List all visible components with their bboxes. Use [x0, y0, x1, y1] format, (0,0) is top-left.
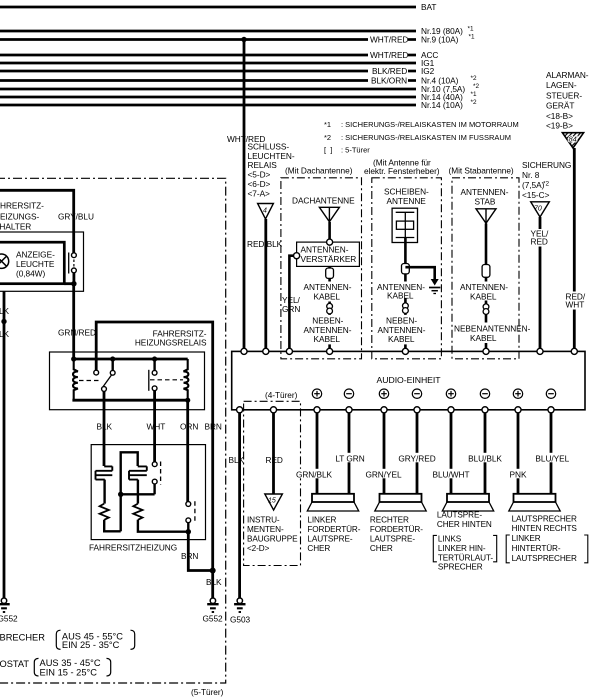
heater switch enclosure box	[0, 232, 84, 291]
svg-text:STAB: STAB	[475, 196, 496, 206]
svg-text:KABEL: KABEL	[314, 334, 341, 344]
svg-text:WHT: WHT	[147, 422, 166, 432]
svg-text:GRN: GRN	[282, 304, 300, 314]
contact K2 circles	[152, 370, 157, 375]
power bus Nr.9 WHT/RED	[0, 38, 368, 41]
rod antenna symbol	[476, 209, 496, 224]
svg-text:LAUTSPRECHER: LAUTSPRECHER	[512, 514, 577, 523]
junction dot BLK branch	[1, 319, 6, 324]
wire label GRN/BLK	[297, 469, 331, 479]
junction dot at bus Nr.9	[241, 37, 246, 42]
junction dot L2 bottom	[185, 398, 190, 403]
svg-text:BLU/YEL: BLU/YEL	[535, 453, 569, 463]
svg-text:(Mit Stabantenne): (Mit Stabantenne)	[449, 165, 514, 175]
wire RED/WHT to audio	[573, 148, 576, 351]
svg-text:84: 84	[569, 135, 577, 144]
label ANTENNEN-KABEL	[376, 282, 428, 299]
contact K2 lever	[148, 370, 150, 391]
svg-text:VERSTÄRKER: VERSTÄRKER	[301, 254, 357, 264]
wire BLK left to ground	[3, 291, 6, 599]
svg-text:HINTERTÜR-: HINTERTÜR-	[512, 543, 561, 553]
svg-text:: SICHERUNGS-/RELAISKASTEN IM: : SICHERUNGS-/RELAISKASTEN IM MOTORRAUM	[341, 120, 519, 129]
svg-text:BLK: BLK	[0, 306, 10, 316]
svg-text:<2-D>: <2-D>	[247, 544, 270, 553]
svg-text:ANTENNEN-: ANTENNEN-	[460, 282, 508, 292]
svg-text:*2: *2	[473, 83, 479, 90]
svg-text:: SICHERUNGS-/RELAISKASTEN IM: : SICHERUNGS-/RELAISKASTEN IM FUSSRAUM	[341, 133, 511, 142]
svg-text:ALARMAN-: ALARMAN-	[546, 70, 589, 80]
svg-text:BRECHER: BRECHER	[0, 632, 45, 642]
wire BRN heater exit	[188, 532, 212, 571]
svg-text:EIN 25 - 35°C: EIN 25 - 35°C	[62, 640, 120, 650]
switch S1 lever	[68, 253, 70, 274]
contact K1 tap wire	[111, 359, 113, 370]
svg-text:GRY/RED: GRY/RED	[398, 453, 435, 463]
bracket right SP4 note	[584, 535, 588, 563]
relay feed wire over box to BRN	[96, 322, 213, 599]
power bus Nr.10	[0, 88, 416, 91]
K2 actuator dash link to coil L2	[150, 379, 183, 381]
svg-text:BLK/RED: BLK/RED	[372, 66, 407, 76]
wire RED/BLK to audio unit	[264, 219, 267, 351]
svg-text:CHER HINTEN: CHER HINTEN	[437, 520, 492, 529]
window antenna symbol	[392, 208, 417, 242]
svg-text:LAUTSPRE-: LAUTSPRE-	[437, 510, 482, 519]
svg-text:<7-A>: <7-A>	[248, 188, 271, 198]
contact K2 tap wire	[153, 359, 155, 370]
svg-text:FAHRERSITZHEIZUNG: FAHRERSITZHEIZUNG	[89, 543, 177, 553]
switch S1 contacts	[72, 253, 77, 258]
wire lamp box to junction	[64, 282, 75, 285]
svg-text:ANTENNEN-: ANTENNEN-	[461, 187, 509, 197]
svg-text:LAUTSPRE-: LAUTSPRE-	[370, 535, 415, 544]
connector circle antenna 2	[402, 348, 408, 354]
ground G552 left	[0, 598, 10, 612]
svg-text:4: 4	[263, 208, 267, 215]
wire stub ACC	[408, 54, 416, 57]
label ANTENNEN-KABEL	[302, 282, 357, 302]
wire BLK to ground G503	[238, 413, 241, 599]
svg-text:WHT: WHT	[566, 300, 585, 310]
svg-text:WHT/RED: WHT/RED	[370, 35, 408, 45]
connector circle YEL/RED top	[537, 348, 543, 354]
resistor R1	[100, 504, 109, 520]
relay coil L1	[73, 359, 78, 400]
label ANTENNEN-KABEL	[459, 282, 510, 301]
junction dot switch/lamp	[71, 281, 76, 286]
wire WHT from K2 down	[153, 391, 156, 463]
audio unit box AUDIO-EINHEIT	[232, 351, 585, 409]
svg-text:<18-B>: <18-B>	[546, 111, 573, 121]
junction dot contact2 tap	[152, 356, 157, 361]
junction dot node A	[118, 492, 123, 497]
svg-text:GRN/YEL: GRN/YEL	[365, 469, 402, 479]
thermal switch TS2	[186, 502, 191, 507]
wire stub IG2	[408, 70, 416, 73]
roof antenna symbol	[319, 207, 339, 222]
svg-text:KABEL: KABEL	[387, 290, 414, 300]
svg-text:STEUER-: STEUER-	[546, 90, 582, 100]
indicator lamp box ANZEIGE-LEUCHTE	[0, 242, 64, 284]
wire label RED/WHT	[564, 292, 587, 310]
svg-text:GERÄT: GERÄT	[546, 101, 574, 111]
svg-text:WHT/RED: WHT/RED	[370, 50, 408, 60]
connector circle RED/BLK top	[263, 348, 269, 354]
coil L1 to K1 actuator dash link	[79, 380, 101, 382]
chassis ground symbol	[431, 279, 439, 286]
svg-text:70: 70	[534, 206, 542, 213]
power bus Nr.14 (10A)	[0, 104, 416, 107]
5-Tuerer section dash-dot border	[0, 178, 226, 683]
wire R2 to junction	[138, 520, 188, 532]
svg-text:AUDIO-EINHEIT: AUDIO-EINHEIT	[377, 375, 442, 385]
connector circle antenna input	[327, 239, 333, 245]
svg-text:SCHALTER: SCHALTER	[0, 222, 31, 232]
element E2 feed loop	[121, 452, 138, 494]
svg-text:DACHANTENNE: DACHANTENNE	[292, 195, 355, 205]
speaker SP1 wires	[316, 413, 319, 494]
svg-text:LINKER HIN-: LINKER HIN-	[438, 544, 486, 553]
power bus Nr.14 (40A)	[0, 96, 416, 99]
svg-text:ANTENNEN-: ANTENNEN-	[304, 282, 352, 292]
connector circle YEL/GRN top	[286, 348, 292, 354]
polarity symbols plus/minus	[312, 389, 555, 398]
svg-text:: 5-Türer: : 5-Türer	[341, 146, 370, 155]
svg-text:KABEL: KABEL	[470, 291, 497, 301]
svg-text:<19-B>: <19-B>	[546, 120, 573, 130]
svg-text:INSTRU-: INSTRU-	[247, 515, 280, 524]
wire label BLU/BLK	[468, 453, 502, 463]
svg-text:SICHERUNG: SICHERUNG	[522, 160, 571, 170]
heating element E1	[96, 466, 113, 479]
svg-text:BLK/ORN: BLK/ORN	[371, 76, 407, 86]
wire R1 to node	[104, 520, 121, 532]
wire antenna to amplifier	[328, 222, 331, 242]
speaker SP4 wires	[517, 413, 520, 494]
svg-text:CHER: CHER	[307, 544, 330, 553]
antenna cable wire	[404, 238, 407, 352]
connector arrow 4	[258, 204, 274, 220]
svg-text:BAT: BAT	[421, 2, 436, 12]
svg-text:HINTEN RECHTS: HINTEN RECHTS	[512, 524, 578, 533]
svg-text:ORN: ORN	[180, 422, 198, 432]
wire WHT/RED from bus to audio unit	[243, 40, 246, 352]
wire stub Nr.9	[408, 38, 416, 41]
svg-text:*1: *1	[469, 34, 475, 41]
seat heating element box FAHRERSITZHEIZUNG	[91, 445, 205, 540]
svg-text:G503: G503	[230, 615, 251, 625]
svg-text:RED: RED	[531, 237, 548, 247]
speaker terminal circles bottom	[314, 407, 320, 413]
svg-text:SPRECHER: SPRECHER	[438, 562, 483, 571]
connector circle RED bottom	[270, 407, 276, 413]
svg-text:*1: *1	[471, 91, 477, 98]
svg-text:LINKER: LINKER	[307, 515, 336, 524]
svg-text:PNK: PNK	[510, 469, 527, 479]
relay top bus	[72, 358, 187, 361]
svg-text:BRN: BRN	[181, 551, 198, 561]
bracket left SP3 note	[433, 535, 437, 561]
speaker SP3 wires	[450, 413, 453, 494]
changeover contact K1 circles	[94, 370, 99, 375]
svg-text:RED: RED	[266, 455, 283, 465]
power bus IG2 BLK/RED	[0, 70, 368, 73]
junction dot contact tap	[110, 356, 115, 361]
svg-text:EIN 15 - 25°C: EIN 15 - 25°C	[40, 667, 98, 677]
svg-text:(5-Türer): (5-Türer)	[191, 687, 224, 697]
wire stub Nr.4	[408, 79, 416, 82]
resistor R2	[133, 504, 142, 520]
junction dot GRN/RED at bus	[71, 356, 76, 361]
wire BLK from K1 common down	[103, 391, 106, 466]
speaker SP2 wires	[383, 413, 386, 494]
svg-text:(0,84W): (0,84W)	[16, 268, 45, 278]
power bus Nr.4 BLK/ORN	[0, 79, 368, 82]
wire label GRN/YEL	[367, 469, 401, 479]
lamp symbol	[0, 254, 9, 268]
svg-text:*2: *2	[471, 75, 477, 82]
wire YEL/RED to audio	[539, 217, 542, 351]
svg-text:BLK: BLK	[0, 329, 10, 339]
speaker SP2 symbol	[380, 494, 422, 502]
connector circle BLK bottom	[237, 407, 243, 413]
svg-text:*2: *2	[543, 181, 549, 188]
wire RED to instrument cluster	[272, 413, 275, 494]
wire GRN/RED down to relay	[72, 284, 75, 359]
inline cable connector	[403, 303, 409, 309]
connector circle antenna 3	[483, 348, 489, 354]
svg-text:KABEL: KABEL	[388, 334, 415, 344]
svg-text:GRN/BLK: GRN/BLK	[296, 469, 333, 479]
heating element E2	[129, 466, 147, 479]
junction dot under TS2	[186, 529, 191, 534]
wire YEL/GRN amplifier to audio	[289, 256, 293, 352]
svg-text:LT GRN: LT GRN	[335, 453, 364, 463]
svg-text:LAUTSPRE-: LAUTSPRE-	[307, 535, 352, 544]
svg-text:LEUCHTE: LEUCHTE	[16, 259, 55, 269]
element E1 exit wire	[103, 480, 105, 504]
connector circle amplifier supply	[294, 253, 300, 259]
connector arrow 84 hatched	[562, 133, 583, 148]
svg-text:BLK: BLK	[206, 577, 222, 587]
antenna cable wire	[485, 224, 488, 352]
svg-text:LINKS: LINKS	[438, 534, 462, 543]
wire label GRY/RED	[400, 453, 434, 463]
antenna cable wire	[328, 266, 331, 351]
svg-text:<15-C>: <15-C>	[522, 190, 550, 200]
svg-text:BLK: BLK	[229, 455, 245, 465]
label NEBEN-ANTENNEN-KABEL	[302, 315, 358, 345]
svg-text:BLU/BLK: BLU/BLK	[468, 453, 502, 463]
connector arrow 15	[265, 494, 283, 510]
svg-text:BRN: BRN	[205, 422, 222, 432]
svg-text:CHER: CHER	[370, 544, 393, 553]
wire TS1 to node A	[153, 484, 155, 495]
svg-text:[ ]: [ ]	[324, 146, 332, 155]
svg-text:FAHRERSITZ-: FAHRERSITZ-	[0, 201, 44, 211]
svg-text:Nr.9 (10A): Nr.9 (10A)	[421, 35, 459, 45]
wire label LT GRN	[336, 453, 364, 463]
svg-text:elektr. Fensterheber): elektr. Fensterheber)	[364, 166, 440, 176]
svg-text:BLK: BLK	[97, 422, 113, 432]
svg-text:HEIZUNGSRELAIS: HEIZUNGSRELAIS	[135, 338, 207, 348]
wire ORN down	[186, 400, 189, 502]
wire label PNK	[509, 469, 528, 479]
relay coil L2	[184, 359, 189, 400]
bracket left SP4 note	[506, 535, 510, 563]
svg-text:Nr.14 (10A): Nr.14 (10A)	[421, 100, 463, 110]
label NEBEN-ANTENNEN-KABEL	[377, 315, 433, 345]
coax collar connector	[402, 264, 410, 274]
ground G552 right	[207, 598, 218, 612]
seat heater relay box	[50, 352, 205, 410]
wire TS2 to junction	[187, 523, 189, 532]
svg-text:ANTENNEN-: ANTENNEN-	[301, 244, 349, 254]
svg-text:SCHEIBEN-: SCHEIBEN-	[384, 186, 429, 196]
svg-text:(4-Türer): (4-Türer)	[265, 390, 298, 400]
svg-text:(Mit Dachantenne): (Mit Dachantenne)	[285, 165, 353, 175]
svg-text:BLU/WHT: BLU/WHT	[433, 469, 470, 479]
wire node A horizontal	[121, 493, 155, 495]
wire label YEL/RED	[529, 229, 551, 247]
svg-text:*2: *2	[324, 133, 331, 142]
connector circle RED/WHT top	[571, 348, 577, 354]
connector circle WHT/RED top	[241, 348, 247, 354]
svg-text:FORDERTÜR-: FORDERTÜR-	[370, 524, 423, 534]
svg-text:BAUGRUPPE: BAUGRUPPE	[247, 534, 298, 543]
wire GRY/BLU from switch	[0, 190, 74, 253]
svg-text:LAGEN-: LAGEN-	[546, 80, 577, 90]
svg-text:*2: *2	[471, 99, 477, 106]
svg-text:LAUTSPRECHER: LAUTSPRECHER	[512, 554, 577, 563]
svg-text:Nr. 8: Nr. 8	[522, 170, 540, 180]
svg-text:(7,5A): (7,5A)	[522, 180, 545, 190]
svg-text:MENTEN-: MENTEN-	[247, 525, 284, 534]
coax collar connector	[482, 265, 490, 278]
svg-text:ANZEIGE-: ANZEIGE-	[16, 249, 55, 259]
svg-text:KABEL: KABEL	[470, 333, 497, 343]
svg-text:HEIZUNGS-: HEIZUNGS-	[0, 212, 39, 222]
element E2 exit wire	[137, 480, 139, 504]
svg-text:G552: G552	[203, 614, 224, 624]
svg-text:IG2: IG2	[421, 66, 435, 76]
svg-text:15: 15	[268, 498, 276, 505]
inline cable connector	[327, 303, 333, 309]
speaker SP3 symbol	[447, 494, 489, 502]
contact K1 lever	[103, 375, 112, 387]
inline cable connector	[483, 304, 489, 310]
power bus Nr.19 (80A)	[0, 30, 416, 33]
connector circle antenna 1	[327, 348, 333, 354]
speaker SP1 symbol	[312, 494, 354, 502]
bracket right SP3 note	[493, 535, 497, 561]
svg-text:TERTÜRLAUT-: TERTÜRLAUT-	[438, 552, 494, 562]
ground G503	[234, 598, 245, 612]
coax collar connector	[326, 268, 334, 278]
relay bottom bus	[72, 399, 187, 402]
ground branch wire	[405, 267, 434, 279]
junction dot BRN/BLK	[210, 568, 216, 574]
svg-text:FORDERTÜR-: FORDERTÜR-	[307, 524, 360, 534]
power bus ACC WHT/RED	[0, 54, 368, 57]
power bus IG1	[0, 62, 416, 65]
svg-text:OSTAT: OSTAT	[0, 659, 29, 669]
svg-text:GRY/BLU: GRY/BLU	[58, 211, 94, 221]
svg-text:GRN/RED: GRN/RED	[58, 328, 96, 338]
wire label BLU/WHT	[434, 469, 468, 479]
svg-text:*1: *1	[324, 120, 331, 129]
svg-text:ANTENNE: ANTENNE	[387, 196, 427, 206]
wire switch to junction	[73, 273, 76, 285]
power bus BAT	[0, 6, 416, 9]
speaker SP4 symbol	[514, 494, 556, 502]
svg-text:*1: *1	[468, 26, 474, 33]
svg-text:KABEL: KABEL	[314, 291, 341, 301]
antenna amplifier box ANTENNEN-VERSTAERKER	[297, 242, 360, 266]
svg-text:RECHTER: RECHTER	[370, 515, 409, 524]
svg-text:LINKER: LINKER	[512, 534, 541, 543]
node wire vertical	[119, 494, 121, 531]
svg-text:RED/BLK: RED/BLK	[247, 239, 283, 249]
label NEBENANTENNEN-KABEL	[454, 323, 518, 344]
connector arrow 70	[531, 202, 550, 217]
wire label BLU/YEL	[536, 453, 570, 463]
thermal switch TS1	[152, 462, 157, 467]
svg-text:G552: G552	[0, 614, 18, 624]
